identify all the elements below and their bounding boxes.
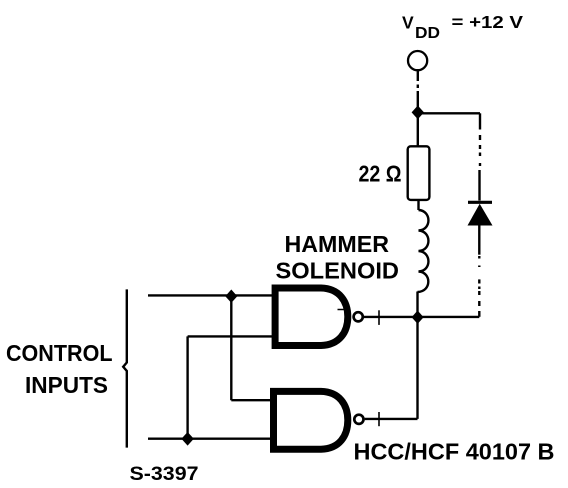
svg-text:INPUTS: INPUTS xyxy=(25,372,108,398)
svg-text:= +12 V: = +12 V xyxy=(452,12,524,32)
svg-text:22 Ω: 22 Ω xyxy=(359,161,402,187)
svg-text:SOLENOID: SOLENOID xyxy=(276,258,400,284)
svg-text:V: V xyxy=(402,13,414,33)
svg-text:CONTROL: CONTROL xyxy=(6,340,113,366)
svg-text:HCC/HCF 40107 B: HCC/HCF 40107 B xyxy=(354,439,555,465)
svg-text:HAMMER: HAMMER xyxy=(285,231,390,257)
svg-text:DD: DD xyxy=(415,25,440,42)
svg-text:S-3397: S-3397 xyxy=(130,464,199,485)
